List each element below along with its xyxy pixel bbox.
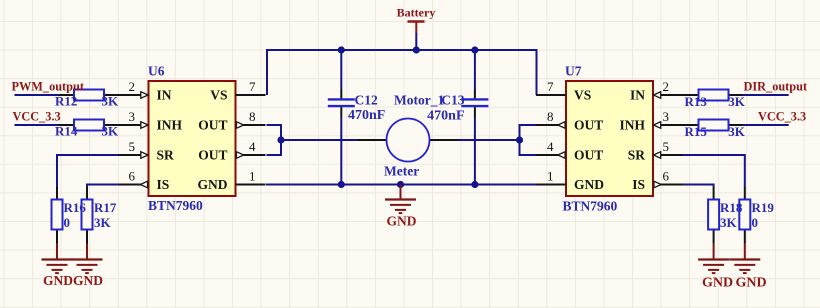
svg-text:1: 1 (249, 169, 256, 184)
svg-text:6: 6 (129, 169, 136, 184)
capacitor C13 470nF (427, 89, 488, 124)
svg-text:IN: IN (157, 87, 172, 102)
svg-text:R15: R15 (685, 124, 708, 139)
junction (397, 181, 404, 188)
wire R13 to DIR_output (743, 94, 789, 96)
pin 5 (SR) of U7 (628, 139, 683, 162)
svg-text:5: 5 (129, 139, 136, 154)
svg-text:7: 7 (547, 79, 554, 94)
svg-text:GND: GND (574, 177, 604, 192)
svg-text:470nF: 470nF (348, 108, 385, 123)
pin 1 (GND) of U6 (198, 169, 266, 192)
junction (516, 136, 523, 143)
resistor R16 (52, 187, 63, 244)
pin 3 (INH) of U7 (619, 109, 683, 132)
svg-text:IS: IS (157, 177, 170, 192)
svg-text:R18: R18 (720, 200, 743, 215)
svg-text:3K: 3K (720, 215, 738, 230)
svg-text:2: 2 (129, 79, 136, 94)
resistor R13 (683, 90, 746, 110)
svg-text:3K: 3K (728, 94, 746, 109)
svg-text:Motor_1: Motor_1 (394, 93, 444, 108)
pin 2 (IN) of U7 (630, 79, 683, 102)
svg-text:GND: GND (43, 273, 73, 288)
svg-text:8: 8 (547, 109, 554, 124)
pin 5 (SR) of U6 (119, 139, 175, 162)
ground (R17) (72, 244, 104, 289)
power port Battery (397, 6, 436, 34)
resistor R19 (720, 187, 774, 244)
svg-text:5: 5 (663, 139, 670, 154)
resistor R18 (708, 187, 719, 244)
svg-text:VCC_3.3: VCC_3.3 (13, 110, 61, 124)
svg-text:INH: INH (157, 117, 183, 132)
pin 4 (OUT) of U6 (198, 139, 265, 162)
resistor R14 (55, 120, 119, 139)
wire U6 OUT join vertical (267, 125, 282, 155)
wire U7 IS pin6 to R18 (683, 185, 714, 188)
wire motor left (281, 139, 358, 141)
svg-text:VS: VS (574, 87, 591, 102)
wire ground bus U6 pin1 to U7 pin1 (266, 184, 537, 186)
junction (471, 46, 478, 53)
svg-text:GND: GND (735, 276, 766, 291)
svg-text:SR: SR (628, 147, 646, 162)
ground (R16) (42, 244, 74, 289)
pin 6 (IS) of U6 (119, 169, 170, 192)
svg-text:R12: R12 (55, 94, 77, 109)
svg-text:3: 3 (129, 109, 136, 124)
svg-text:R19: R19 (752, 200, 775, 215)
svg-text:3K: 3K (94, 215, 112, 230)
junction (471, 181, 478, 188)
junction (413, 46, 420, 53)
svg-text:4: 4 (547, 139, 554, 154)
junction (338, 46, 345, 53)
svg-text:IS: IS (632, 177, 645, 192)
IC U7 BTN7960 body (566, 81, 653, 196)
svg-text:BTN7960: BTN7960 (148, 198, 203, 213)
svg-text:3K: 3K (102, 124, 120, 139)
svg-text:3K: 3K (728, 124, 746, 139)
pin 8 (OUT) of U7 (536, 109, 603, 132)
svg-text:1: 1 (547, 169, 554, 184)
wire PWM_output net to R12 (15, 94, 60, 96)
pin 7 (VS) of U7 (536, 79, 591, 102)
resistor R15 (683, 120, 746, 140)
svg-text:R16: R16 (64, 200, 87, 215)
svg-text:0: 0 (64, 215, 71, 230)
resistor R17 (64, 187, 117, 244)
junction (338, 181, 345, 188)
svg-text:2: 2 (663, 79, 670, 94)
pin 6 (IS) of U7 (632, 169, 683, 192)
pin 3 (INH) of U6 (119, 109, 183, 132)
ground (R18) (698, 244, 733, 291)
svg-text:VCC_3.3: VCC_3.3 (758, 110, 806, 124)
svg-text:7: 7 (249, 79, 256, 94)
svg-text:R14: R14 (55, 124, 78, 139)
svg-text:OUT: OUT (198, 147, 227, 162)
wire U6 SR pin5 to R16 (57, 155, 119, 187)
wire U6 IS pin6 to R17 (87, 185, 119, 188)
svg-text:3K: 3K (102, 94, 120, 109)
wire VS bus: U6 pin7 up across to U7 pin7 (267, 50, 537, 95)
svg-text:GND: GND (387, 214, 417, 229)
svg-text:U7: U7 (565, 64, 582, 79)
svg-text:OUT: OUT (574, 147, 603, 162)
pin 2 (IN) of U6 (119, 79, 172, 102)
svg-text:U6: U6 (148, 64, 165, 79)
svg-text:GND: GND (73, 273, 103, 288)
svg-text:GND: GND (198, 177, 228, 192)
svg-text:470nF: 470nF (427, 109, 464, 124)
wire R15 to VCC_3.3 (743, 124, 789, 126)
wire motor right (460, 139, 520, 141)
wire VCC_3.3 net to R14 (15, 124, 60, 126)
svg-text:6: 6 (663, 169, 670, 184)
pin 7 (VS) of U6 (210, 79, 265, 102)
wire C12 branch vertical (340, 50, 342, 89)
resistor R12 (55, 90, 119, 109)
svg-text:C13: C13 (441, 93, 464, 108)
svg-text:IN: IN (630, 87, 645, 102)
junction (277, 136, 284, 143)
motor Motor_1 (Meter) (358, 93, 460, 179)
svg-text:SR: SR (157, 147, 175, 162)
ground (motor GND) (385, 185, 417, 229)
wire U7 OUT join vertical (520, 125, 537, 155)
svg-text:R17: R17 (94, 200, 117, 215)
svg-text:PWM_output: PWM_output (12, 80, 85, 94)
svg-text:BTN7960: BTN7960 (563, 199, 618, 214)
svg-text:C12: C12 (355, 93, 378, 108)
svg-text:Meter: Meter (384, 164, 419, 179)
pin 4 (OUT) of U7 (536, 139, 603, 162)
ground (R19) (729, 244, 766, 291)
svg-text:OUT: OUT (574, 117, 603, 132)
wire C13 branch vertical (474, 50, 476, 89)
svg-text:DIR_output: DIR_output (744, 80, 808, 94)
pin 1 (GND) of U7 (536, 169, 604, 192)
svg-text:OUT: OUT (198, 117, 227, 132)
svg-text:0: 0 (752, 215, 759, 230)
svg-text:8: 8 (249, 109, 256, 124)
svg-text:4: 4 (249, 139, 256, 154)
svg-text:R13: R13 (685, 94, 708, 109)
pin 8 (OUT) of U6 (198, 109, 265, 132)
capacitor C12 470nF (328, 89, 386, 123)
svg-text:GND: GND (702, 276, 733, 291)
wire U7 SR pin5 to R19 (683, 155, 745, 187)
IC U6 BTN7960 body (149, 81, 236, 196)
svg-text:3: 3 (663, 109, 670, 124)
wire battery drop (415, 33, 417, 50)
svg-text:INH: INH (619, 117, 645, 132)
svg-text:Battery: Battery (397, 6, 436, 20)
svg-text:VS: VS (210, 87, 227, 102)
